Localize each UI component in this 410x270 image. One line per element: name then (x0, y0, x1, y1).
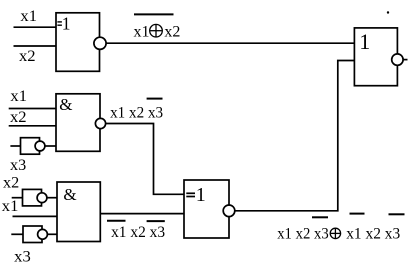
wire x1 into gate D3 (13, 215, 58, 217)
wire D2 output to gate D4 (106, 124, 184, 195)
gate D1 label =1 (57, 21, 62, 23)
overline over x3 of label (147, 220, 165, 222)
inverter B3 bubble (35, 141, 45, 151)
overline over x3 second group (389, 213, 405, 215)
svg-text:&: & (59, 95, 72, 114)
gate D4 label =1 (186, 192, 195, 194)
AND gate D3 box (57, 182, 100, 242)
xor symbol of output expression (330, 228, 340, 238)
XOR gate D1 box (56, 13, 100, 72)
svg-text:1: 1 (359, 29, 370, 54)
AND gate D2 box (56, 94, 100, 152)
inverter C1 bubble (37, 193, 47, 203)
wire inverter C1 to gate D3 (47, 197, 57, 199)
wire x2 into gate D2 (9, 125, 56, 127)
gate D5 output bubble (392, 54, 403, 65)
inverter B3 box (21, 138, 40, 155)
XOR gate D4 box (184, 180, 229, 238)
svg-text:1: 1 (62, 13, 71, 33)
wire x3 into inverter B3 (10, 145, 20, 147)
wire D4 output to OR gate (235, 61, 355, 211)
overline over x3 first group (312, 216, 328, 218)
svg-text:x3: x3 (14, 249, 31, 265)
svg-text:x1: x1 (10, 88, 27, 105)
wire D3 output to gate D4 (100, 213, 184, 215)
svg-text:x2: x2 (19, 48, 36, 65)
OR gate D5 box (354, 28, 397, 86)
stray dot (387, 11, 389, 13)
svg-text:x2: x2 (3, 174, 19, 191)
overline over x1 second group (350, 213, 365, 215)
svg-text:1: 1 (196, 184, 206, 206)
inverter C2 bubble (38, 229, 48, 239)
wire x1 into gate D2 (9, 108, 56, 110)
svg-text:x1 x2 x3: x1 x2 x3 (277, 226, 329, 243)
wire D5 output stub (403, 59, 407, 61)
wire x3 into inverter C2 (11, 233, 23, 235)
inverter C1 box (23, 189, 42, 206)
svg-text:x2: x2 (10, 109, 27, 126)
overline over x1 of label (107, 220, 126, 222)
svg-text:x2: x2 (164, 24, 180, 41)
svg-text:x1 x2 x3: x1 x2 x3 (346, 226, 400, 243)
wire inverter C2 to gate D3 (47, 233, 57, 235)
svg-text:x3: x3 (10, 157, 26, 174)
overline over x1 xor x2 (134, 13, 174, 15)
svg-text:x1: x1 (2, 198, 19, 215)
wire x2 into gate D1 (14, 45, 57, 47)
svg-text:x1: x1 (20, 8, 37, 25)
svg-text:x1 x2 x3: x1 x2 x3 (110, 105, 163, 122)
svg-text:&: & (63, 185, 76, 204)
gate D4 output bubble (223, 205, 235, 217)
wire x1 into gate D1 (14, 26, 57, 28)
inverter C2 box (23, 226, 42, 243)
wire D1 output to OR gate (106, 42, 355, 44)
gate D2 output bubble (95, 118, 105, 128)
overline over x3 of label x1x2x3 (147, 98, 163, 100)
xor symbol circle-plus (150, 24, 163, 37)
wire inverter B3 to gate D2 (45, 145, 56, 147)
svg-text:x1: x1 (134, 24, 150, 41)
svg-text:x1 x2 x3: x1 x2 x3 (111, 224, 165, 241)
wire x2 into inverter C1 (12, 197, 23, 199)
gate D1 output bubble (94, 37, 106, 49)
